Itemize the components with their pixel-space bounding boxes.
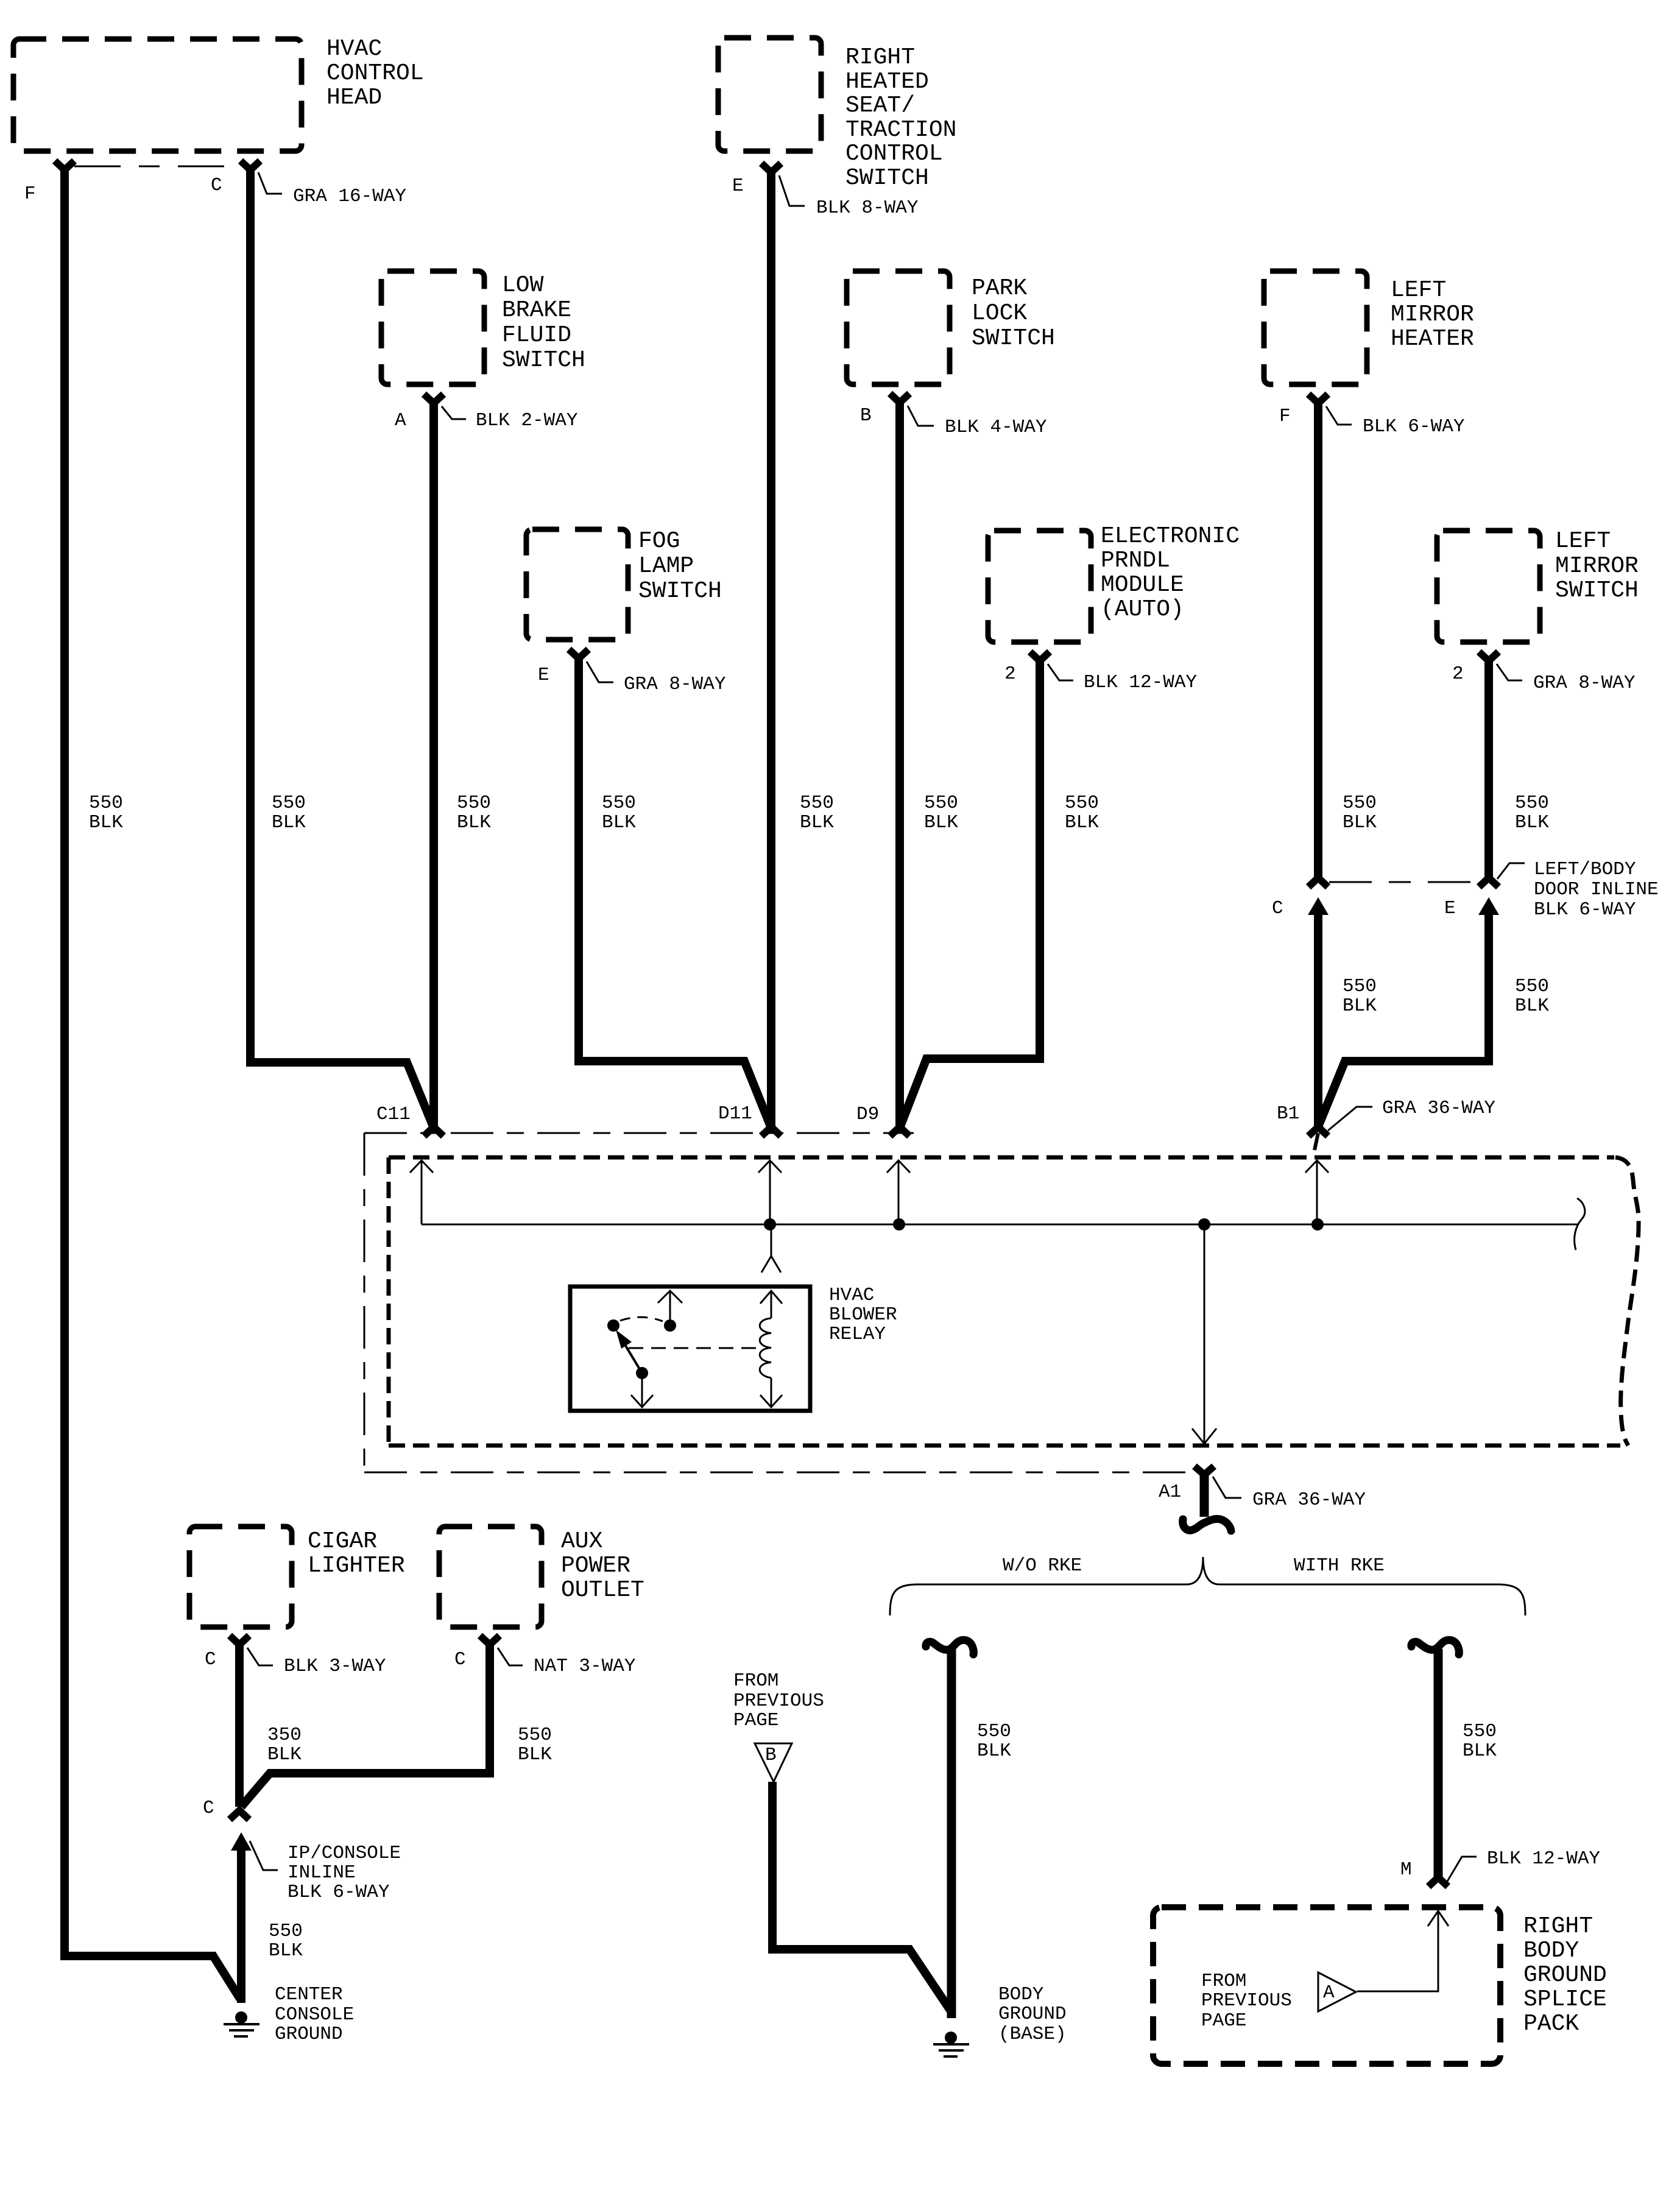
svg-text:PREVIOUS: PREVIOUS [733, 1690, 824, 1712]
HVAC blower relay box [570, 1287, 810, 1411]
relay coil pin line with arrows [760, 1291, 782, 1407]
svg-text:E: E [538, 665, 549, 686]
svg-text:350: 350 [267, 1725, 302, 1746]
connector A1 chevron [1195, 1466, 1214, 1475]
wire 550 BLK from left mirror heater F to inline connector [1314, 402, 1322, 878]
label ELECTRONIC PRNDL MODULE (AUTO) [1101, 523, 1240, 623]
svg-text:TRACTION: TRACTION [845, 117, 956, 143]
leader line BLK 4-WAY [908, 406, 934, 426]
svg-text:SWITCH: SWITCH [638, 578, 722, 604]
svg-text:GROUND: GROUND [998, 2003, 1067, 2025]
connector label BLK 12-WAY [1487, 1848, 1600, 1869]
svg-text:E: E [1444, 898, 1456, 919]
connector label IP/CONSOLE INLINE BLK 6-WAY [288, 1843, 401, 1903]
wire 550 BLK from inline connector C to junction B1 [1314, 910, 1322, 1126]
svg-text:FROM: FROM [1201, 1971, 1246, 1992]
svg-text:F: F [24, 183, 36, 205]
wire label 550 BLK (seat E column) [800, 793, 834, 833]
svg-text:SEAT/: SEAT/ [845, 93, 915, 119]
wire 550 BLK from HVAC pin F to center console ground [65, 169, 240, 1999]
connector label BLK 12-WAY [1084, 672, 1197, 693]
svg-text:BLK: BLK [1065, 812, 1099, 833]
connector C11 chevron [424, 1127, 443, 1136]
svg-text:DOOR INLINE: DOOR INLINE [1534, 879, 1659, 900]
svg-text:SWITCH: SWITCH [502, 347, 585, 373]
connector label BLK 2-WAY [476, 410, 578, 431]
wire label 550 BLK (park B column) [924, 793, 958, 833]
svg-text:BLK 2-WAY: BLK 2-WAY [476, 410, 578, 431]
svg-text:FROM: FROM [733, 1670, 778, 1692]
label FROM PREVIOUS PAGE [1201, 1971, 1292, 2032]
svg-text:C: C [1272, 898, 1283, 919]
connector label GRA 36-WAY [1252, 1489, 1366, 1511]
relay common pin arrow [658, 1291, 682, 1319]
fork feed to HVAC blower relay coil [761, 1224, 781, 1273]
svg-text:BLK: BLK [1343, 812, 1377, 833]
connector label GRA 8-WAY [624, 674, 726, 695]
wire 350 BLK from cigar lighter to console connector [235, 1643, 244, 1807]
pin label E [1444, 898, 1456, 919]
svg-text:CONTROL: CONTROL [845, 141, 943, 167]
leader line IP/CONSOLE INLINE [250, 1841, 278, 1870]
svg-text:CONSOLE: CONSOLE [275, 2004, 354, 2025]
svg-text:(BASE): (BASE) [998, 2024, 1067, 2045]
label CENTER CONSOLE GROUND [275, 1984, 354, 2045]
leader line GRA 8-WAY [1497, 664, 1522, 680]
svg-text:F: F [1279, 406, 1291, 427]
svg-text:HEAD: HEAD [326, 85, 382, 111]
wire label 550 BLK (fog E column) [602, 793, 636, 833]
component box RIGHT BODY GROUND SPLICE PACK [1153, 1907, 1500, 2064]
label RIGHT BODY GROUND SPLICE PACK [1523, 1913, 1607, 2037]
internal arrow below D11 [758, 1160, 782, 1224]
svg-text:BLK 3-WAY: BLK 3-WAY [284, 1656, 386, 1677]
connector face dashed line between F and C [74, 166, 241, 168]
svg-text:550: 550 [89, 793, 123, 814]
svg-text:BLK: BLK [602, 812, 636, 833]
svg-text:M: M [1400, 1859, 1412, 1880]
node label D11 [718, 1103, 752, 1124]
relay switch fixed contact dot (common) [664, 1319, 676, 1332]
connector label GRA 8-WAY [1533, 673, 1636, 694]
svg-text:GRA 36-WAY: GRA 36-WAY [1252, 1489, 1366, 1511]
wire 550 BLK from right heated seat switch E to junction D11 [767, 171, 775, 1126]
svg-text:550: 550 [269, 1921, 303, 1942]
option brace W/O RKE / WITH RKE [890, 1557, 1525, 1615]
svg-text:LOW: LOW [502, 272, 544, 298]
wire pigtail curl W/O RKE branch [926, 1640, 973, 1654]
svg-text:W/O RKE: W/O RKE [1003, 1555, 1082, 1576]
connector pin E of fog lamp switch [569, 649, 588, 658]
inline connector lower half pin C arrow [1308, 897, 1329, 915]
svg-text:FOG: FOG [638, 528, 680, 554]
wire label 550 BLK [977, 1721, 1011, 1762]
connector M chevron [1428, 1877, 1448, 1887]
connector label BLK 3-WAY [284, 1656, 386, 1677]
label CIGAR LIGHTER [308, 1528, 405, 1579]
connector label GRA 16-WAY [293, 186, 406, 207]
svg-text:BLK 12-WAY: BLK 12-WAY [1487, 1848, 1600, 1869]
connector pin B of park lock switch [890, 394, 909, 403]
wire label 350 BLK [267, 1725, 302, 1765]
from previous page triangle A [1318, 1972, 1356, 2011]
component box LOW BRAKE FLUID SWITCH [381, 271, 484, 384]
label HVAC BLOWER RELAY [829, 1285, 897, 1345]
relay movable contact dot [636, 1367, 648, 1379]
connector label BLK 6-WAY [1363, 416, 1465, 437]
svg-text:550: 550 [602, 793, 636, 814]
svg-text:550: 550 [518, 1725, 552, 1746]
body ground (base) symbol bars [933, 2044, 969, 2056]
wire label 550 BLK (mirror switch column) [1515, 793, 1549, 833]
svg-text:BLK 12-WAY: BLK 12-WAY [1084, 672, 1197, 693]
relay switch blade [621, 1338, 642, 1373]
pin label 2 [1004, 663, 1016, 685]
internal bus wire [422, 1224, 1578, 1226]
label LOW BRAKE FLUID SWITCH [502, 272, 585, 373]
svg-text:RELAY: RELAY [829, 1324, 886, 1345]
svg-text:SWITCH: SWITCH [845, 165, 929, 191]
svg-text:INLINE: INLINE [288, 1862, 356, 1883]
svg-text:GRA 8-WAY: GRA 8-WAY [1533, 673, 1636, 694]
svg-text:PREVIOUS: PREVIOUS [1201, 1990, 1292, 2011]
svg-text:AUX: AUX [561, 1528, 603, 1555]
component box RIGHT HEATED SEAT/TRACTION CONTROL SWITCH [718, 38, 821, 151]
svg-text:B: B [765, 1745, 777, 1766]
wire 550 BLK from left mirror switch 2 to inline connector [1484, 660, 1493, 878]
internal wire from bus down to A1 [1204, 1224, 1205, 1444]
svg-text:HEATER: HEATER [1391, 326, 1474, 352]
wire 550 BLK from fog lamp switch E to junction D11 [579, 657, 771, 1126]
pin label C [1272, 898, 1283, 919]
svg-text:BLK 4-WAY: BLK 4-WAY [945, 417, 1047, 438]
svg-text:HVAC: HVAC [326, 36, 382, 62]
junction block outer boundary (dash-dot) top [364, 1132, 914, 1134]
junction block outer boundary (dash-dot) left [364, 1133, 365, 1472]
junction dot at D9 bus [893, 1218, 905, 1230]
svg-text:B: B [860, 405, 872, 426]
svg-text:550: 550 [1343, 976, 1377, 997]
label FROM PREVIOUS PAGE [733, 1670, 824, 1731]
svg-text:BLK 6-WAY: BLK 6-WAY [288, 1882, 390, 1903]
svg-text:NAT 3-WAY: NAT 3-WAY [534, 1656, 636, 1677]
pin label A [395, 410, 406, 431]
relay switch output pin arrow [631, 1373, 653, 1407]
svg-text:A: A [395, 410, 406, 431]
wire 550 BLK from low brake fluid switch A to junction C11 [429, 402, 438, 1126]
svg-text:CENTER: CENTER [275, 1984, 343, 2005]
svg-text:550: 550 [1463, 1721, 1497, 1742]
svg-text:LEFT: LEFT [1555, 528, 1611, 554]
svg-text:RIGHT: RIGHT [845, 44, 915, 71]
internal arrow above A1 [1192, 1428, 1216, 1444]
wire label 550 BLK (inline C column) [1343, 976, 1377, 1017]
connector label NAT 3-WAY [534, 1656, 636, 1677]
wire label 550 BLK [1463, 1721, 1497, 1762]
svg-text:BLK: BLK [272, 812, 306, 833]
connector B1 chevron [1308, 1127, 1328, 1136]
label W/O RKE [1003, 1555, 1082, 1576]
svg-text:D11: D11 [718, 1103, 752, 1124]
internal arrow below D9 [887, 1160, 910, 1224]
svg-text:BODY: BODY [1523, 1938, 1579, 1964]
svg-text:PAGE: PAGE [733, 1710, 778, 1731]
svg-text:RIGHT: RIGHT [1523, 1913, 1593, 1940]
component box PARK LOCK SWITCH [847, 271, 950, 384]
internal splice arrow to M [1357, 1911, 1449, 1991]
node label D9 [856, 1104, 879, 1125]
svg-text:550: 550 [924, 793, 958, 814]
svg-text:GRA 36-WAY: GRA 36-WAY [1382, 1098, 1495, 1119]
junction block inner boundary (thick dashed) bottom [389, 1444, 1620, 1448]
svg-text:LIGHTER: LIGHTER [308, 1553, 405, 1579]
svg-text:C: C [205, 1649, 216, 1670]
center console ground symbol bars [224, 2024, 259, 2036]
wire label 550 BLK (inline E column) [1515, 976, 1549, 1017]
IP/console inline connector upper chevron C [230, 1810, 249, 1820]
svg-text:BLK: BLK [1343, 995, 1377, 1017]
svg-text:B1: B1 [1277, 1103, 1299, 1124]
svg-text:2: 2 [1452, 663, 1464, 685]
internal arrow below C11 [410, 1160, 433, 1224]
relay dashed actuation line [629, 1347, 760, 1349]
leader line GRA 8-WAY [587, 662, 613, 682]
label FOG LAMP SWITCH [638, 528, 722, 604]
connector label BLK 4-WAY [945, 417, 1047, 438]
relay coil windings [760, 1318, 771, 1378]
svg-text:BLOWER: BLOWER [829, 1304, 897, 1326]
svg-text:WITH RKE: WITH RKE [1294, 1555, 1385, 1576]
svg-text:550: 550 [800, 793, 834, 814]
inline connector lower half pin E arrow [1478, 897, 1499, 915]
node label B1 [1277, 1103, 1299, 1124]
connector D9 chevron [890, 1127, 909, 1136]
connector B1 tail [1315, 1133, 1318, 1150]
connector label LEFT/BODY DOOR INLINE BLK 6-WAY [1534, 859, 1659, 920]
label HVAC CONTROL HEAD [326, 36, 424, 111]
svg-text:C11: C11 [376, 1104, 411, 1125]
pin label F [24, 183, 36, 205]
svg-text:MIRROR: MIRROR [1391, 302, 1474, 328]
svg-text:BODY: BODY [998, 1984, 1044, 2005]
svg-text:BLK: BLK [1463, 1740, 1497, 1762]
label LEFT MIRROR SWITCH [1555, 528, 1639, 604]
svg-text:HEATED: HEATED [845, 69, 929, 95]
svg-text:A1: A1 [1159, 1481, 1181, 1503]
pin label B [860, 405, 872, 426]
svg-text:ELECTRONIC: ELECTRONIC [1101, 523, 1240, 549]
label RIGHT HEATED SEAT/TRACTION CONTROL SWITCH [845, 44, 956, 191]
svg-text:A: A [1323, 1982, 1335, 2003]
svg-text:LEFT/BODY: LEFT/BODY [1534, 859, 1636, 880]
svg-text:MIRROR: MIRROR [1555, 553, 1639, 579]
wire label 550 BLK (C column) [272, 793, 306, 833]
svg-text:BLK: BLK [89, 812, 123, 833]
svg-text:BLK: BLK [267, 1744, 302, 1765]
inline connector face dashed line [1329, 881, 1478, 883]
component box FOG LAMP SWITCH [526, 529, 628, 640]
bus continuation break symbol [1575, 1198, 1585, 1250]
svg-text:POWER: POWER [561, 1553, 630, 1579]
label WITH RKE [1294, 1555, 1385, 1576]
wire label 550 BLK (mirror heater column) [1343, 793, 1377, 833]
junction dot at D11 bus [764, 1218, 776, 1230]
svg-text:CIGAR: CIGAR [308, 1528, 377, 1555]
svg-text:550: 550 [1515, 976, 1549, 997]
connector D11 chevron [761, 1127, 781, 1136]
connector pin C of HVAC control head [241, 161, 260, 170]
leader line GRA 16-WAY [258, 172, 282, 194]
svg-text:SWITCH: SWITCH [972, 325, 1055, 351]
pin label C [205, 1649, 216, 1670]
svg-text:550: 550 [1343, 793, 1377, 814]
connector pin F of HVAC control head [55, 161, 74, 170]
svg-text:CONTROL: CONTROL [326, 60, 424, 86]
svg-text:550: 550 [272, 793, 306, 814]
connector label GRA 36-WAY [1382, 1098, 1495, 1119]
component box CIGAR LIGHTER [189, 1527, 292, 1627]
wire label 550 BLK [518, 1725, 552, 1765]
component box HVAC CONTROL HEAD [13, 39, 302, 151]
leader line NAT 3-WAY [498, 1648, 523, 1665]
wire from triangle B to body ground [772, 1782, 950, 2010]
svg-text:LAMP: LAMP [638, 553, 694, 579]
pin label M [1400, 1859, 1412, 1880]
label B [765, 1745, 777, 1766]
inline connector upper half (left/body door inline) left pin [1308, 878, 1328, 887]
svg-text:GROUND: GROUND [275, 2024, 343, 2045]
label LEFT MIRROR HEATER [1391, 277, 1474, 352]
wire pigtail curl WITH RKE branch [1411, 1640, 1459, 1654]
leader line BLK 12-WAY at M [1447, 1857, 1477, 1882]
from previous page triangle B [755, 1743, 792, 1782]
svg-text:BLK: BLK [269, 1940, 303, 1961]
wire 550 BLK W/O RKE branch to body ground [947, 1649, 956, 2018]
svg-text:IP/CONSOLE: IP/CONSOLE [288, 1843, 401, 1864]
leader line BLK 2-WAY [442, 406, 466, 419]
svg-text:BLK 6-WAY: BLK 6-WAY [1363, 416, 1465, 437]
svg-text:BLK: BLK [924, 812, 958, 833]
relay switch blade arrowhead [616, 1330, 632, 1349]
connector pin 2 of left mirror switch [1479, 652, 1498, 661]
svg-text:PRNDL: PRNDL [1101, 548, 1170, 574]
svg-text:D9: D9 [856, 1104, 879, 1125]
svg-text:BLK: BLK [800, 812, 834, 833]
svg-text:GROUND: GROUND [1523, 1962, 1607, 1988]
junction dot at A1 bus [1198, 1218, 1210, 1230]
pin label F [1279, 406, 1291, 427]
svg-text:BLK: BLK [977, 1740, 1011, 1762]
wire 550 BLK from inline connector E to junction B1 [1319, 910, 1489, 1125]
svg-text:PACK: PACK [1523, 2011, 1579, 2037]
pin label 2 [1452, 663, 1464, 685]
svg-text:550: 550 [1515, 793, 1549, 814]
junction dot at B1 bus [1311, 1218, 1324, 1230]
wire 550 BLK from inline connector to center console ground [237, 1849, 245, 2003]
svg-text:2: 2 [1004, 663, 1016, 685]
svg-text:MODULE: MODULE [1101, 572, 1184, 598]
label A [1323, 1982, 1335, 2003]
component box LEFT MIRROR HEATER [1264, 271, 1367, 384]
svg-text:C: C [203, 1798, 214, 1819]
svg-text:BLK: BLK [518, 1744, 552, 1765]
wire label 550 BLK [269, 1921, 303, 1961]
component box AUX POWER OUTLET [439, 1527, 542, 1627]
inline connector upper half right pin [1479, 878, 1498, 887]
leader line LEFT/BODY DOOR INLINE [1497, 863, 1525, 879]
wire 550 BLK from HVAC pin C to junction C11 [250, 169, 433, 1126]
pin label E [732, 175, 744, 197]
internal arrow below B1 [1305, 1160, 1329, 1224]
leader line BLK 8-WAY [779, 175, 805, 206]
svg-text:E: E [732, 175, 744, 197]
wire 550 BLK from aux power outlet joining cigar wire [241, 1643, 490, 1807]
pin label C [454, 1649, 466, 1670]
svg-text:LEFT: LEFT [1391, 277, 1446, 303]
svg-text:BLK: BLK [1515, 812, 1549, 833]
connector pin C of aux power outlet [480, 1636, 499, 1645]
wire 550 BLK from PRNDL module 2 to junction D9 [900, 660, 1040, 1126]
svg-text:GRA 8-WAY: GRA 8-WAY [624, 674, 726, 695]
pin label C [203, 1798, 214, 1819]
relay dashed link between contacts [620, 1317, 663, 1321]
connector pin F of left mirror heater [1308, 394, 1328, 403]
svg-text:PARK: PARK [972, 275, 1027, 302]
leader line BLK 3-WAY [247, 1648, 273, 1665]
leader line BLK 6-WAY [1326, 406, 1352, 425]
wire pigtail curl at A1 [1183, 1519, 1231, 1531]
body ground (base) symbol dot [945, 2032, 957, 2044]
wire 550 BLK from park lock switch B to junction D9 [895, 401, 904, 1126]
junction block outer boundary (dash-dot) bottom [364, 1472, 1191, 1474]
svg-text:BLK: BLK [1515, 995, 1549, 1017]
connector pin A of low brake fluid switch [424, 394, 443, 403]
node label C11 [376, 1104, 411, 1125]
label BODY GROUND (BASE) [998, 1984, 1067, 2045]
wire A1 stub [1200, 1475, 1209, 1517]
pin label C [211, 175, 222, 196]
svg-text:GRA 16-WAY: GRA 16-WAY [293, 186, 406, 207]
wire label 550 BLK (F column) [89, 793, 123, 833]
svg-text:550: 550 [977, 1721, 1011, 1742]
component box ELECTRONIC PRNDL MODULE (AUTO) [988, 531, 1091, 642]
svg-text:HVAC: HVAC [829, 1285, 874, 1306]
connector pin 2 of electronic PRNDL module [1030, 652, 1050, 661]
svg-text:OUTLET: OUTLET [561, 1577, 644, 1603]
svg-text:LOCK: LOCK [972, 300, 1027, 327]
connector pin C of cigar lighter [230, 1636, 249, 1645]
svg-text:BLK 8-WAY: BLK 8-WAY [816, 197, 919, 219]
connector pin E of right heated seat switch [761, 163, 781, 172]
svg-text:C: C [454, 1649, 466, 1670]
wire label 550 BLK (PRNDL column) [1065, 793, 1099, 833]
svg-text:BLK 6-WAY: BLK 6-WAY [1534, 899, 1636, 920]
leader line BLK 12-WAY [1048, 664, 1073, 680]
svg-text:550: 550 [457, 793, 491, 814]
svg-text:(AUTO): (AUTO) [1101, 596, 1184, 623]
svg-text:PAGE: PAGE [1201, 2010, 1246, 2032]
IP/console inline connector lower arrow [231, 1832, 252, 1851]
svg-text:BRAKE: BRAKE [502, 297, 571, 323]
svg-text:SWITCH: SWITCH [1555, 577, 1639, 604]
node label A1 [1159, 1481, 1181, 1503]
component box LEFT MIRROR SWITCH [1437, 531, 1540, 642]
junction block inner boundary (thick dashed) left [387, 1157, 391, 1446]
leader line GRA 36-WAY at A1 [1213, 1477, 1241, 1498]
svg-text:C: C [211, 175, 222, 196]
label AUX POWER OUTLET [561, 1528, 644, 1603]
junction block inner boundary (thick dashed) top [389, 1156, 1614, 1160]
